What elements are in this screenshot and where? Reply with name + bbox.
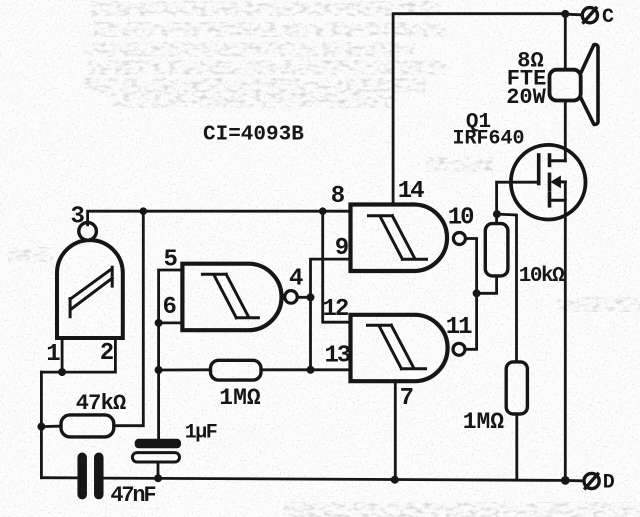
svg-text:14: 14 (398, 178, 424, 205)
svg-text:2: 2 (100, 340, 114, 367)
node pin7 bottom junction (391, 476, 399, 484)
terminal C (582, 8, 597, 23)
label 47kohm (76, 391, 126, 416)
wire 47k left lead (41, 425, 61, 428)
wire jog to 1M pulldown (497, 214, 517, 362)
wire output 3 rail (88, 211, 351, 225)
node 47k left junction (37, 423, 45, 431)
label 4 (289, 266, 303, 293)
label 8ohm FTE 20W (506, 49, 546, 111)
capacitor 47nF plate 1 (77, 457, 87, 494)
wire output 4 (297, 296, 310, 299)
bubble output 4 (285, 291, 298, 304)
label 10kohm (519, 265, 565, 288)
wire 1M left lead (159, 368, 211, 371)
node gate junction (493, 210, 501, 218)
svg-text:IRF640: IRF640 (452, 128, 524, 151)
label D (603, 472, 615, 495)
node outputs junction (473, 289, 481, 297)
label 1uF (185, 422, 217, 445)
svg-text:1: 1 (46, 341, 60, 368)
NAND gate IC1d pins 12,13,11 (351, 315, 448, 381)
label 9 (335, 235, 349, 262)
transistor Q1 gate bar (537, 155, 541, 184)
transistor Q1 drain lead (550, 159, 566, 162)
bubble output 11 (453, 343, 465, 355)
svg-text:CI=4093B: CI=4093B (203, 124, 304, 147)
label 13 (324, 343, 350, 370)
resistor 10k body (485, 224, 508, 276)
svg-text:8: 8 (331, 183, 345, 210)
svg-text:12: 12 (322, 296, 347, 323)
svg-text:1μF: 1μF (185, 422, 217, 445)
node pin13 junction (307, 366, 315, 374)
label Q1 IRF640 (452, 111, 524, 151)
svg-text:10: 10 (448, 205, 474, 232)
wire riser to pin 12 (323, 211, 351, 322)
wire top rail from pin14 corner to node C (393, 14, 565, 205)
wire bottom rail right segment (105, 478, 565, 480)
label 8 (331, 183, 345, 210)
transistor Q1 body circle (511, 145, 586, 220)
wire node to output 11 (465, 293, 477, 349)
NAND gate IC1c pins 8,9,10 (351, 205, 448, 272)
label 12 (322, 296, 347, 323)
label 1 (46, 341, 60, 368)
transistor Q1 gate lead wire (497, 182, 539, 214)
svg-text:47nF: 47nF (110, 483, 155, 508)
resistor 1M pulldown body (506, 362, 527, 414)
transistor Q1 channel segments (548, 155, 552, 206)
node 1M left junction (155, 366, 163, 374)
node 1uF bottom junction (154, 474, 162, 482)
wire 10k bottom lead (477, 276, 497, 293)
speaker FTE (550, 45, 599, 125)
svg-text:C: C (602, 6, 614, 29)
wire down to 1uF (157, 323, 160, 439)
node pin 6 junction (155, 319, 163, 327)
wire pin 5 (159, 270, 183, 323)
wire 1uF to bottom rail (157, 462, 160, 478)
label CI=4093B (203, 124, 304, 147)
svg-text:3: 3 (70, 204, 84, 231)
label 3 (70, 204, 84, 231)
wire pins 1,2 tie (41, 338, 115, 372)
svg-text:7: 7 (400, 385, 414, 412)
schmitt symbol IC1d (368, 325, 426, 369)
capacitor 1uF minus plate (132, 453, 179, 462)
wire pin 7 to bottom rail (394, 381, 397, 480)
NAND gate IC1b pins 5,6,4 (182, 264, 281, 331)
schmitt symbol IC1b (202, 274, 258, 318)
label 14 (398, 178, 424, 205)
label 11 (446, 314, 472, 341)
wire pin 9 (311, 259, 351, 370)
wire 47k right lead riser (114, 211, 144, 426)
node bottom-right junction (561, 476, 570, 485)
svg-text:1MΩ: 1MΩ (219, 385, 261, 411)
wire to terminal D (565, 479, 584, 482)
label 7 (400, 385, 414, 412)
svg-text:47kΩ: 47kΩ (76, 391, 126, 416)
schmitt symbol IC1c (369, 216, 427, 260)
node top-right junction (561, 10, 569, 18)
wire bottom rail left segment (41, 476, 77, 479)
node pin1 junction (58, 368, 66, 376)
wire 10k top lead (495, 214, 498, 224)
svg-text:11: 11 (446, 314, 472, 341)
schmitt symbol IC1a (70, 267, 112, 316)
node output4 junction (307, 293, 315, 301)
terminal D (584, 473, 599, 488)
svg-text:D: D (603, 472, 615, 495)
bubble output 10 (453, 233, 465, 245)
transistor Q1 source lead (550, 199, 566, 202)
label 10 (448, 205, 474, 232)
label 5 (163, 247, 177, 274)
wire pin 6 (159, 321, 183, 324)
resistor 1M body (211, 360, 262, 380)
label 2 (100, 340, 114, 367)
label 1Mohm vertical (463, 409, 505, 435)
node feedback junction (140, 207, 148, 215)
bubble output 3 (79, 223, 97, 241)
label 1Mohm horizontal (219, 385, 261, 411)
svg-text:1MΩ: 1MΩ (463, 409, 505, 435)
transistor Q1 body diode arrow (550, 176, 565, 189)
svg-text:20W: 20W (506, 85, 546, 110)
wire pin 13 and 1M right lead (261, 368, 351, 371)
label C (602, 6, 614, 29)
node pin12 riser junction (319, 207, 327, 215)
capacitor 47nF plate 2 (94, 457, 104, 494)
wire source down to bottom rail (564, 182, 567, 481)
resistor 47k body (61, 415, 114, 437)
wire speaker top (564, 14, 567, 70)
label 47nF (110, 483, 155, 508)
wire left riser (40, 372, 43, 478)
label 6 (162, 294, 176, 321)
svg-text:13: 13 (324, 343, 350, 370)
wire 1M pulldown to bottom rail (515, 414, 518, 480)
capacitor 1uF plus plate (135, 439, 181, 449)
svg-text:10kΩ: 10kΩ (519, 265, 565, 288)
NAND gate IC1a pins 1,2,3 (vertical) (57, 240, 123, 338)
wire speaker to drain (564, 101, 567, 161)
wire node C to terminal C (565, 13, 582, 16)
svg-text:4: 4 (289, 266, 303, 293)
wire output 10 to node (465, 239, 476, 294)
svg-text:6: 6 (162, 294, 176, 321)
